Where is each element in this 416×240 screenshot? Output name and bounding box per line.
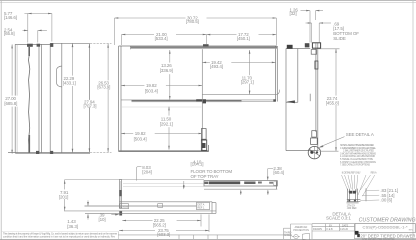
dimension 23.75 [603.3]: [119, 214, 209, 232]
tray edge latch details: [201, 129, 206, 140]
dimension 11.50 [292.1] vertical: [168, 107, 170, 150]
dimension 5.77 [146.6]: [24, 14, 52, 43]
svg-text:DRAWN: DRAWN: [313, 228, 322, 231]
detail A dim leaders: [360, 190, 379, 200]
svg-text:[455.8]: [455.8]: [326, 101, 339, 106]
right view mid fitting: [315, 61, 318, 69]
dimension 22.25 [565.2]: [122, 214, 201, 226]
detail A leader fan: [342, 175, 375, 196]
svg-text:REV A: REV A: [371, 172, 377, 175]
svg-text:[32]: [32]: [290, 11, 297, 16]
main view bottom rail (thick): [119, 150, 209, 152]
tray right edge: [201, 49, 203, 150]
left view handle slot: [57, 66, 62, 87]
dimension 26.53 [673.9] vertical: [90, 43, 112, 152]
svg-text:[104.1]: [104.1]: [191, 162, 204, 167]
dimension 30.72 [780.5]: [115, 18, 277, 45]
projection box: [284, 224, 313, 239]
svg-text:[65.8]: [65.8]: [4, 31, 15, 36]
svg-text:BY: BY: [329, 224, 333, 227]
dimension 8.03 [204] leader: [137, 167, 142, 181]
right view bottom roller wheel: [308, 146, 320, 158]
main plan view outline: [119, 46, 278, 152]
svg-text:[201]: [201]: [59, 195, 68, 200]
svg-text:19.82: 19.82: [135, 131, 146, 136]
dimension 27.94 [707.3] on right edge: [89, 44, 91, 153]
dimension 13.26 [336.9] vertical: [169, 50, 171, 100]
fine print box: [1, 231, 118, 239]
svg-text:CUSTOMER DRAWING: CUSTOMER DRAWING: [359, 218, 416, 224]
bottom plan view of slide: [64, 202, 216, 214]
bottom bar cells: [118, 235, 290, 240]
svg-text:OF TOP TRAY: OF TOP TRAY: [191, 174, 219, 179]
dimension 2.54 [64.8]: [23, 30, 47, 42]
front bracket of side elevation: [119, 180, 121, 208]
dimension 11.70 [297.1] vertical: [249, 50, 251, 94]
svg-text:[10]: [10]: [99, 217, 106, 222]
dimension 27.00 [685.8] vertical at far left: [11, 44, 13, 153]
right view lower parts: [312, 131, 317, 137]
svg-text:.060 REF: .060 REF: [347, 207, 358, 210]
svg-text:[780.5]: [780.5]: [186, 19, 199, 24]
right view top clip: [287, 45, 293, 49]
svg-text:[707.3]: [707.3]: [84, 103, 97, 108]
left view dark front bracket: [29, 45, 30, 153]
svg-text:[533.4]: [533.4]: [155, 36, 168, 41]
svg-text:[503.4]: [503.4]: [134, 136, 147, 141]
left view bottom mounting clips: [36, 151, 39, 154]
left side view outline: [8, 43, 89, 153]
svg-text:PROJECTION: PROJECTION: [293, 229, 309, 232]
right view top screws cluster: [305, 43, 310, 47]
dimension 7.91 [201] vertical: [64, 180, 66, 211]
svg-text:REF 1: REF 1: [198, 206, 205, 209]
svg-text:[433.1]: [433.1]: [63, 81, 76, 86]
svg-text:condition that it and the info: condition that it and the information co…: [3, 235, 116, 238]
svg-text:[493.4]: [493.4]: [210, 64, 223, 69]
svg-text:[204]: [204]: [142, 169, 151, 174]
svg-text:[565.2]: [565.2]: [153, 223, 166, 228]
dimension 19.82 [503.4] upper: [121, 85, 202, 87]
dimension 19.42 [493.4]: [202, 61, 275, 63]
anchor arrow on side elevation ghost: [183, 181, 185, 188]
svg-text:[685.8]: [685.8]: [4, 101, 17, 106]
lower side elevation view (slide extended ghost + closed rail): [65, 180, 278, 190]
right view mid arrow: [286, 100, 295, 103]
middle rail dark end bracket: [196, 99, 206, 103]
right end view outline: [286, 43, 319, 150]
svg-text:K.E.B: K.E.B: [327, 228, 334, 231]
svg-text:7. SEE CATALOG FOR OPTIONS: 7. SEE CATALOG FOR OPTIONS: [340, 164, 370, 167]
svg-text:19.82: 19.82: [146, 83, 157, 88]
slide label plate: [120, 204, 129, 209]
notes text block: [340, 144, 377, 175]
svg-text:[336.9]: [336.9]: [160, 68, 173, 73]
svg-text:SEE DETAIL A: SEE DETAIL A: [346, 132, 374, 137]
arrow at mid plan view: [87, 200, 89, 205]
tray bottom line: [202, 94, 276, 96]
svg-text:REV: REV: [409, 229, 414, 231]
svg-text:.00 [6]: .00 [6]: [380, 198, 392, 203]
svg-text:[146.6]: [146.6]: [4, 15, 17, 20]
dimension 23.74 [455.8] vertical: [319, 49, 340, 151]
svg-text:[603.3]: [603.3]: [157, 232, 170, 237]
svg-text:8. DETAIL REF ONLY: 8. DETAIL REF ONLY: [342, 172, 361, 175]
svg-text:0.26.20: 0.26.20: [340, 228, 349, 231]
detail A cross-section: [347, 188, 367, 203]
dimension 1.26 [32]: [301, 11, 324, 43]
faint lower guide line: [122, 106, 202, 108]
svg-text:[292.1]: [292.1]: [160, 122, 173, 127]
dimension 17.72 [450.1]: [207, 34, 277, 36]
main view middle rail: [121, 99, 276, 101]
revision table: [312, 224, 355, 240]
svg-text:CSS(P)-D5DDDDBL-1-*: CSS(P)-D5DDDDBL-1-*: [363, 225, 408, 230]
svg-text:[673.9]: [673.9]: [97, 84, 110, 89]
title row: [355, 231, 359, 235]
svg-text:CSS16: CSS16: [121, 206, 129, 209]
svg-text:ANGLE: ANGLE: [284, 234, 293, 237]
dimension 22.29 [433.1] vertical: [72, 43, 74, 152]
slide rivet boxes: [158, 204, 163, 208]
svg-text:[503.4]: [503.4]: [145, 88, 158, 93]
svg-text:SCALE 0.3:1: SCALE 0.3:1: [326, 215, 351, 220]
dimension 2.38 [60.4]: [268, 169, 273, 180]
svg-text:DATE: DATE: [342, 224, 349, 227]
closed rail (dark band): [204, 181, 277, 186]
dimension 19.82 [503.4] lower: [121, 133, 202, 135]
main view top rail (thick): [131, 47, 278, 49]
part number box: [355, 224, 415, 233]
svg-text:[36.3]: [36.3]: [67, 224, 78, 229]
dimension 21.00 [533.4]: [122, 35, 207, 46]
dimension .69 [17.5] BOTTOM OF SLIDE: [306, 23, 332, 43]
svg-text:[60.4]: [60.4]: [273, 170, 284, 175]
left view top mounting clips: [27, 44, 33, 47]
up arrows under rail: [240, 190, 242, 195]
svg-text:SLIDE: SLIDE: [333, 36, 346, 41]
projection symbol: [292, 233, 310, 240]
svg-text:[297.1]: [297.1]: [241, 79, 254, 84]
svg-text:[450.1]: [450.1]: [237, 36, 250, 41]
